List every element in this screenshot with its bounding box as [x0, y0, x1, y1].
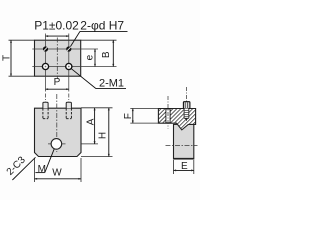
svg-text:W: W: [52, 167, 62, 178]
screw shaft (section): [184, 109, 189, 122]
dowel pin right (front): [66, 102, 71, 108]
plate leg: [174, 124, 194, 159]
centerline row bottom (M1 row) + B extension: [32, 66, 116, 68]
dowel hole top-left: [43, 46, 48, 51]
dimension A line: [94, 108, 96, 144]
dimension A/H top extension: [81, 107, 113, 109]
dimension T line: [10, 40, 12, 76]
dimension T extension lines: [9, 39, 35, 41]
front center axis: [56, 94, 58, 152]
dimension W extension lines: [34, 158, 36, 182]
leader to dowel hole: [70, 31, 80, 46]
hidden pin hole left: [43, 108, 48, 119]
dimension E line: [174, 169, 194, 171]
leader M to hole: [45, 149, 55, 173]
svg-text:P: P: [54, 77, 61, 88]
dimension H line: [108, 108, 110, 157]
dimension A bottom extension (hole center): [81, 143, 98, 145]
dimension H bottom extension: [81, 156, 113, 158]
hole centerline horizontal: [48, 143, 66, 145]
hole M (front): [51, 139, 62, 150]
dimension e line: [94, 49, 96, 67]
screw head: [183, 102, 190, 109]
leg centerline (hole axis): [166, 145, 198, 147]
centerline row top (dowel row): [32, 48, 98, 50]
leader underline for M: [35, 172, 44, 174]
dimension F line: [132, 109, 134, 124]
dimension W line: [35, 178, 82, 180]
pin centerline left: [45, 94, 47, 103]
dimension P line: [46, 88, 69, 90]
svg-text:B: B: [101, 51, 112, 58]
leg bottom edge: [174, 158, 194, 160]
leader to M1 hole: [71, 69, 96, 89]
dimension B top extension: [81, 39, 117, 41]
hidden pin hole right: [66, 108, 71, 119]
dowel hole top-right: [66, 46, 71, 51]
svg-text:H: H: [98, 132, 109, 139]
dimension E extension lines: [173, 160, 175, 174]
pin centerline (side): [167, 96, 169, 129]
leader underline for 2-M1: [96, 88, 126, 90]
dimension B line: [112, 40, 114, 66]
svg-text:E: E: [181, 161, 188, 172]
tapped hole M1 bottom-left: [42, 63, 48, 69]
leader underline for 2-φd H7: [80, 30, 128, 32]
leader 2-C3 to chamfer: [12, 157, 35, 180]
svg-text:P1±0.02: P1±0.02: [34, 19, 79, 33]
screw centerline: [185, 87, 187, 117]
svg-text:2-M1: 2-M1: [99, 78, 124, 90]
center axis column: [56, 38, 58, 80]
svg-text:M: M: [38, 164, 46, 175]
tapped hole M1 bottom-right: [66, 63, 72, 69]
dowel pin left (front): [43, 102, 48, 108]
pin centerline right: [68, 94, 70, 103]
dimension P1 line: [46, 35, 69, 37]
svg-text:T: T: [2, 55, 13, 61]
svg-text:e: e: [85, 54, 96, 60]
block body (front, chamfered bottom corners): [35, 108, 82, 156]
centerline column left + P1/P extensions: [45, 34, 47, 92]
svg-text:A: A: [85, 118, 96, 125]
block body (plan): [35, 40, 81, 76]
svg-text:F: F: [123, 113, 134, 119]
svg-text:2-φd H7: 2-φd H7: [80, 19, 124, 33]
sectioned block (hatched): [158, 109, 195, 130]
dowel pin (section, unhatched): [166, 109, 170, 123]
dimension F extension lines: [130, 108, 158, 110]
centerline column right + P1/P extensions: [68, 34, 70, 92]
